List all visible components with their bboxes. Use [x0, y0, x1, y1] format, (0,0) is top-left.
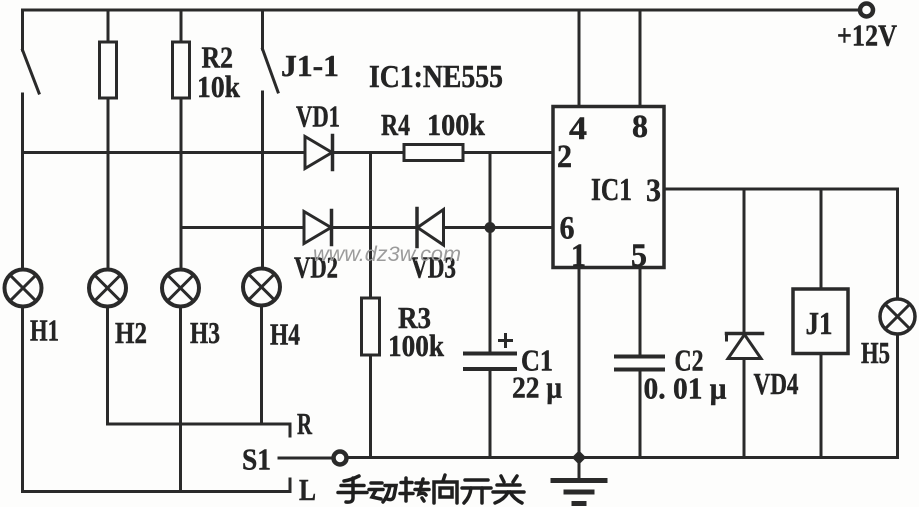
wire H5 to ground rail [896, 335, 899, 458]
switch contact (left, lamp feed) [23, 10, 40, 93]
svg-text:H3: H3 [190, 315, 220, 350]
switch S1 pivot terminal [334, 452, 347, 465]
lamp H4 [243, 269, 280, 306]
wire H1 column [21, 94, 24, 268]
char 动 [369, 483, 396, 502]
wire VD3 to pin6 [444, 226, 553, 229]
svg-text:H1: H1 [30, 313, 59, 348]
svg-text:100k: 100k [388, 328, 445, 363]
relay contact J1-1 [263, 10, 279, 92]
svg-text:L: L [299, 472, 316, 507]
wire bottom ground rail [349, 456, 898, 459]
resistor R3 [362, 298, 380, 355]
svg-text:H2: H2 [115, 315, 147, 350]
svg-text:H4: H4 [270, 317, 300, 352]
wire R contact row [108, 424, 291, 436]
wire H2 to R row [106, 308, 109, 425]
svg-text:IC1: IC1 [591, 171, 632, 207]
svg-text:S1: S1 [242, 442, 271, 477]
svg-text:J1: J1 [806, 305, 833, 341]
svg-text:H5: H5 [861, 335, 890, 370]
wire J1 to ground rail [820, 354, 823, 458]
wire pin 4 [578, 10, 581, 106]
svg-text:1: 1 [571, 238, 586, 274]
svg-text:3: 3 [646, 173, 661, 209]
svg-text:100k: 100k [427, 107, 486, 142]
wire pin 8 [639, 10, 642, 106]
svg-text:VD4: VD4 [754, 366, 799, 401]
wire VD4 drop [743, 189, 746, 333]
wire +12V top rail [23, 9, 859, 12]
diode VD1 [305, 136, 333, 170]
lamp H2 [89, 270, 126, 307]
ground [553, 458, 605, 504]
wire J1 drop [820, 189, 823, 289]
svg-text:8: 8 [632, 109, 648, 145]
capacitor C1 [465, 335, 515, 370]
lamp H3 [162, 270, 199, 307]
wire H4 to R row [260, 307, 263, 425]
label 手动转向开关 (drawn) [338, 475, 524, 503]
wire R3 to S1 rail [369, 355, 372, 458]
char 关 [493, 476, 524, 503]
svg-text:+12V: +12V [837, 18, 898, 53]
wire VD1 to R4 [333, 151, 405, 154]
wire R2 to H3 [180, 98, 183, 268]
svg-text:R: R [297, 406, 312, 441]
diode VD2 [304, 211, 332, 245]
lamp H5 [880, 299, 915, 334]
resistor R4 [404, 145, 463, 161]
wire R1 to H2 [107, 98, 110, 268]
diode VD3 [417, 209, 444, 247]
wire pin 3 rail [664, 189, 898, 298]
svg-text:VD1: VD1 [296, 99, 340, 134]
junction ground node [572, 450, 586, 464]
wire J1-1 to H4 [261, 92, 264, 267]
char 开 [462, 480, 491, 503]
wire C1 column [489, 153, 492, 354]
wire pin 5 to C2 [639, 268, 642, 356]
wire L contact row [23, 479, 291, 492]
wire VD2 to VD3 [332, 226, 418, 229]
lamp H1 [5, 270, 42, 307]
junction node pins2-6 tie [485, 222, 496, 233]
wire C1 to ground rail [489, 369, 492, 458]
wire row pin2 left [23, 151, 306, 154]
wire C2 to ground rail [639, 370, 642, 458]
svg-text:2: 2 [557, 139, 572, 175]
wire R4 to pin2 [463, 151, 553, 154]
wire VD4 to ground rail [743, 359, 746, 458]
svg-text:R4: R4 [381, 107, 410, 142]
diode VD4 [727, 334, 763, 359]
wire row pin6 left [181, 226, 304, 229]
terminal +12V [860, 4, 873, 17]
capacitor C2 [616, 357, 663, 370]
resistor R1 [100, 10, 117, 98]
char 手 [338, 476, 367, 502]
char 向 [434, 475, 457, 503]
wire H1 to L row [21, 308, 24, 492]
wire H3 to L row [179, 308, 182, 492]
svg-text:5: 5 [631, 238, 647, 274]
svg-text:www.dz3w.com: www.dz3w.com [313, 243, 461, 266]
svg-text:IC1:NE555: IC1:NE555 [369, 58, 503, 94]
char 转 [400, 478, 429, 501]
svg-text:J1-1: J1-1 [281, 48, 339, 83]
resistor R2 [173, 10, 190, 98]
relay coil J1 box [793, 289, 848, 354]
svg-text:0. 01 μ: 0. 01 μ [644, 371, 727, 406]
svg-text:10k: 10k [197, 69, 241, 104]
op-amp U1 IC1 NE555 body [553, 107, 664, 268]
wire R3 column [369, 153, 372, 299]
svg-text:22 μ: 22 μ [512, 370, 562, 405]
wire pin 1 to ground [578, 268, 581, 458]
switch S1 pole wire [279, 457, 332, 460]
